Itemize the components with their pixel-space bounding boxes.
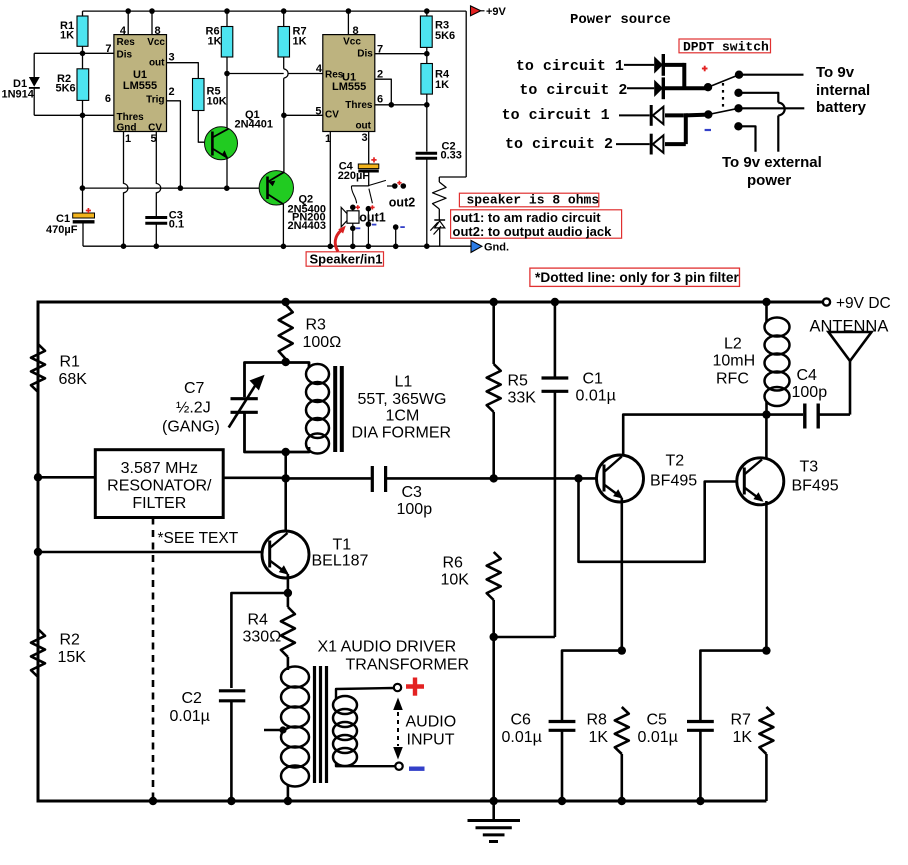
node left rail junction dots — [34, 473, 42, 556]
label to circuit 1 (row1) — [516, 58, 624, 75]
wire Q1 emitter down to net row — [226, 158, 228, 188]
node tank top junction dot — [282, 358, 290, 366]
svg-text:+9V DC: +9V DC — [836, 295, 891, 312]
svg-text:330Ω: 330Ω — [243, 629, 282, 646]
polarity + mark audio (red) — [406, 678, 424, 696]
wire U1b pin6 Thres row — [375, 104, 427, 106]
svg-text:*Dotted line: only for 3 pin f: *Dotted line: only for 3 pin filter — [535, 270, 739, 285]
node Q2 collector at rail dot — [281, 244, 287, 250]
svg-text:R5: R5 — [508, 373, 529, 390]
U1a pin number labels — [105, 25, 175, 145]
label To 9v internal battery — [816, 64, 870, 116]
resistor R5 10K — [193, 79, 205, 111]
wire ground rail (top circuit) — [83, 245, 471, 247]
label AUDIO INPUT — [406, 714, 457, 749]
svg-text:3.587 MHz: 3.587 MHz — [121, 460, 198, 477]
wire T1 emitter to node — [287, 574, 290, 593]
inductor L2 10mH RFC — [765, 302, 790, 415]
svg-text:BF495: BF495 — [650, 473, 697, 490]
wire row1 to diode — [624, 64, 654, 66]
svg-text:out2: to output audio jack: out2: to output audio jack — [453, 224, 613, 239]
transistor Q1 2N4401 — [205, 127, 238, 160]
label +9V — [486, 6, 507, 18]
capacitor C1 0.01u — [542, 302, 569, 637]
svg-text:1CM: 1CM — [386, 408, 420, 425]
switch contact dots — [734, 71, 743, 131]
speaker (8 ohm) — [341, 207, 359, 228]
transformer X1 primary winding — [281, 657, 309, 801]
label ANTENNA — [810, 318, 889, 336]
svg-text:L2: L2 — [724, 336, 742, 353]
svg-text:Trig: Trig — [146, 95, 164, 106]
polarity + mark (switch, red) — [702, 66, 708, 72]
wire row3 to diode — [619, 114, 650, 116]
svg-text:100p: 100p — [397, 501, 433, 518]
wire U1a pin1 Gnd to ground rail — [124, 132, 128, 247]
svg-text:power: power — [747, 172, 791, 189]
label R6 1K — [206, 26, 222, 48]
resistor R8 1K — [615, 707, 629, 801]
svg-text:DIA FORMER: DIA FORMER — [352, 425, 452, 442]
wire left rail to resonator — [38, 476, 95, 479]
capacitor C3 0.1 (top circuit) — [145, 218, 167, 247]
svg-text:*SEE TEXT: *SEE TEXT — [158, 530, 239, 547]
resistor R5 33K — [487, 302, 501, 478]
svg-text:to circuit 1: to circuit 1 — [516, 58, 624, 75]
wire C1 bottom to R6 node — [494, 636, 555, 639]
svg-text:R3: R3 — [306, 317, 327, 334]
label R4 330ohm — [243, 612, 282, 646]
node R8 at rail dot — [618, 797, 626, 805]
svg-text:out1: out1 — [359, 210, 385, 224]
wire base row to C3 — [286, 477, 371, 480]
node Q1 collector junction dot — [224, 71, 230, 77]
node out2 minus dot — [393, 224, 399, 230]
label +9V DC — [836, 295, 891, 312]
wire feedback T2 base to T3 base — [579, 478, 745, 561]
wire U1b pin2 to Thres row — [375, 79, 392, 105]
svg-text:R6: R6 — [443, 555, 464, 572]
label R4 1K — [435, 69, 450, 91]
node speaker minus dot — [350, 226, 356, 232]
node out2 contact dots — [392, 183, 406, 189]
label R2 15K — [58, 632, 87, 667]
svg-text:33K: 33K — [508, 390, 537, 407]
svg-text:AUDIO: AUDIO — [406, 714, 457, 731]
value label R1 1K — [60, 20, 74, 42]
node tank bottom junction dot — [282, 448, 290, 456]
node T3 emitter/C5 junction dot — [762, 646, 770, 654]
svg-text:CV: CV — [148, 123, 162, 134]
transistor Q2 2N5400/PN200/2N4403 (PNP) — [259, 171, 293, 205]
label to circuit 2 (row2) — [519, 82, 627, 99]
svg-text:1K: 1K — [435, 79, 449, 91]
wire R4 node down to C2 — [426, 105, 428, 152]
label Q1 2N4401 — [235, 109, 274, 130]
capacitor C6 0.01u — [549, 651, 622, 801]
node R4/Thres junction dot — [424, 102, 430, 108]
node speaker at rail dot — [350, 244, 356, 250]
node out1 plus dot — [366, 206, 372, 212]
label C3 0.1 — [169, 210, 184, 231]
polarity - mark speaker (blue) — [356, 227, 361, 229]
node Q1 emitter junction dot — [224, 185, 230, 191]
svg-text:LM555: LM555 — [332, 81, 366, 93]
svg-text:100p: 100p — [792, 384, 828, 401]
svg-text:R4: R4 — [248, 612, 269, 629]
wire U1a pin5 CV down through C3 — [156, 132, 160, 217]
node T1 emitter junction dot — [284, 589, 292, 597]
svg-text:470µF: 470µF — [46, 224, 78, 236]
node thres1 junction dot — [80, 113, 86, 119]
terminal +9V DC (open circle) — [823, 298, 830, 305]
wire left supply rail — [37, 301, 40, 803]
svg-text:Speaker/in1: Speaker/in1 — [310, 252, 383, 267]
capacitor C2 0.01u (audio) — [219, 691, 245, 801]
svg-text:DPDT switch: DPDT switch — [683, 40, 769, 55]
polarity + mark out1 — [370, 205, 374, 209]
wire tank bottom to base row — [284, 452, 287, 478]
svg-text:FILTER: FILTER — [132, 495, 186, 512]
terminal audio input + (open circle) — [394, 684, 401, 691]
label T1 BEL187 — [312, 537, 369, 570]
svg-text:0.01µ: 0.01µ — [576, 388, 616, 405]
svg-text:1K: 1K — [293, 36, 307, 48]
svg-text:TRANSFORMER: TRANSFORMER — [346, 657, 470, 674]
value label R2 5K6 — [56, 73, 76, 95]
capacitor C4 220uF electrolytic — [358, 164, 379, 186]
svg-text:5K6: 5K6 — [435, 30, 455, 42]
node dots on transmitter top rail — [282, 298, 771, 306]
svg-text:L1: L1 — [395, 374, 413, 391]
label R5 33K — [508, 373, 537, 407]
polarity + mark speaker — [356, 205, 360, 209]
svg-text:C5: C5 — [647, 712, 668, 729]
svg-text:out2: out2 — [389, 195, 415, 209]
node U1b pin1 at rail dot — [328, 244, 334, 250]
svg-text:1N914: 1N914 — [2, 88, 35, 100]
svg-text:1: 1 — [125, 133, 131, 145]
op-amp U1 LM555 (first timer IC) body — [114, 35, 167, 132]
dashed line (3 pin filter) — [152, 518, 155, 802]
svg-text:BF495: BF495 — [792, 478, 839, 495]
wire U1b pin7 Dis to R3/R4 node — [375, 53, 427, 55]
polarity - mark out1 (blue) — [372, 224, 377, 226]
svg-text:T2: T2 — [666, 453, 685, 470]
svg-text:Gnd: Gnd — [117, 123, 137, 134]
diode D1 1N914 — [29, 53, 83, 115]
resistor R4 330ohm — [281, 593, 295, 657]
wire Q2 collector down to ground rail — [282, 204, 284, 246]
svg-text:internal: internal — [816, 82, 870, 99]
node dis1 junction (R1/R2/D1/pin7) — [80, 51, 86, 57]
svg-text:1K: 1K — [208, 36, 222, 48]
inductor L1 coil — [306, 364, 329, 454]
resistor R2 15K — [31, 629, 45, 677]
label R3 100ohm — [303, 317, 342, 352]
polarity + mark C4 — [371, 157, 376, 162]
wire pin7 Dis row to U1a — [83, 52, 114, 54]
svg-text:1K: 1K — [589, 729, 609, 746]
wire T1 base row — [38, 551, 269, 554]
indicator resistor (LED series) — [433, 11, 467, 220]
label C4 100p — [792, 367, 828, 401]
wire tank circuit loop — [245, 363, 310, 453]
node pin2/Thres junction dot — [389, 102, 395, 108]
svg-text:10mH: 10mH — [713, 353, 756, 370]
label L2 10mH RFC — [713, 336, 756, 388]
label R1 68K — [59, 354, 88, 389]
svg-text:5: 5 — [315, 106, 321, 118]
resistor R1 — [77, 11, 88, 53]
svg-text:2: 2 — [169, 86, 175, 98]
label *SEE TEXT — [158, 530, 239, 547]
svg-text:C7: C7 — [184, 380, 205, 397]
svg-text:Dis: Dis — [117, 50, 133, 61]
capacitor C3 100p — [372, 466, 385, 492]
label Q2 2N5400 PN200 2N4403 — [288, 194, 327, 232]
red callout arrow to speaker — [335, 226, 346, 252]
node resonator/base row dot — [282, 474, 290, 482]
label to circuit 1 (row3) — [502, 107, 610, 124]
label R3 5K6 — [435, 20, 455, 43]
callout box: Speaker/in1 — [306, 252, 383, 267]
wire R6 node to U1b pin4 Res — [227, 73, 323, 75]
svg-text:5K6: 5K6 — [56, 83, 76, 95]
svg-text:8: 8 — [353, 25, 359, 37]
diode D row3 (to circuit 1, reversed) — [651, 105, 663, 126]
svg-text:to circuit 1: to circuit 1 — [502, 107, 610, 124]
wire Thres row to U1a pin6 — [83, 114, 114, 116]
LED indicator diode — [430, 220, 445, 246]
label T2 BF495 — [650, 453, 697, 490]
svg-text:10K: 10K — [207, 96, 227, 108]
wire Q1 collector up to R6 node — [226, 74, 228, 129]
L1 core bars — [335, 366, 342, 452]
svg-text:0.01µ: 0.01µ — [170, 708, 210, 725]
svg-text:2N4401: 2N4401 — [235, 118, 274, 130]
svg-text:ANTENNA: ANTENNA — [810, 318, 889, 336]
node C5 at rail dot — [696, 797, 704, 805]
X1 core bars — [315, 666, 327, 783]
transistor T1 BEL187 — [262, 531, 309, 578]
svg-text:C6: C6 — [511, 712, 532, 729]
label T3 BF495 — [792, 459, 839, 495]
svg-text:0.01µ: 0.01µ — [638, 729, 678, 746]
wire U1b pin8 to rail — [347, 11, 349, 34]
svg-text:INPUT: INPUT — [407, 732, 455, 749]
svg-text:3: 3 — [169, 51, 175, 63]
svg-text:out: out — [149, 58, 165, 69]
wire bottom ground rail (transmitter) — [37, 800, 767, 803]
svg-text:T1: T1 — [333, 537, 352, 554]
svg-text:R7: R7 — [731, 712, 752, 729]
svg-text:Power source: Power source — [570, 12, 671, 28]
label C1 0.01u — [576, 371, 616, 405]
switch pole + blade — [704, 75, 739, 92]
resistor R1 68K — [31, 344, 45, 392]
wire top contact to internal battery + — [739, 74, 804, 76]
svg-text:3: 3 — [362, 132, 368, 144]
svg-text:4: 4 — [120, 25, 127, 37]
switch blade to speaker/in1 — [351, 186, 356, 203]
svg-text:RFC: RFC — [716, 371, 749, 388]
switch out-select common stub — [352, 185, 369, 187]
transistor T2 BF495 — [597, 455, 644, 502]
wire out2 line to ground rail — [395, 227, 397, 246]
wire T1 collector riser — [284, 478, 287, 532]
diode D row1 (to circuit 1) — [654, 54, 663, 76]
wire +9V DC top rail (transmitter) — [38, 301, 823, 304]
svg-text:R2: R2 — [60, 632, 81, 649]
svg-text:6: 6 — [105, 93, 111, 105]
wire emitter node to C2 branch — [231, 593, 288, 688]
ground Gnd terminal arrow (blue) — [471, 240, 482, 252]
node out1 at rail dot — [366, 244, 372, 250]
wire C3 to T2 base — [386, 477, 603, 480]
wire R5 to Q1 base — [198, 111, 205, 143]
svg-text:55T, 365WG: 55T, 365WG — [358, 391, 447, 408]
callout box: speaker is 8 ohms — [459, 193, 599, 208]
polarity + mark C1 — [86, 208, 91, 213]
wire CV node to U1b pin5 — [284, 114, 323, 116]
title Power source — [570, 12, 671, 28]
terminal audio input - (open circle) — [395, 763, 402, 770]
node out2 at rail dot — [393, 244, 399, 250]
node trig1 junction dot — [178, 185, 184, 191]
wire U1b pin1 to ground rail — [329, 132, 331, 247]
wire thick join rows3-4 to - pole — [665, 113, 708, 144]
label C3 100p — [397, 484, 433, 518]
svg-text:Gnd.: Gnd. — [484, 241, 509, 253]
label R6 10K — [441, 555, 470, 589]
wire +9V top supply rail of 555 circuit — [83, 10, 467, 12]
wire middle contact down to external power — [739, 93, 785, 152]
U1a internal pin labels — [117, 37, 166, 134]
wire speaker to ground rail — [352, 228, 354, 246]
transistor T3 BF495 — [737, 458, 784, 505]
capacitor C5 0.01u — [687, 651, 766, 801]
wire T3 emitter down — [765, 501, 768, 651]
node R6/C1 junction dot — [490, 633, 498, 641]
U1b pin number labels — [315, 25, 383, 145]
node L2 bottom junction dot — [762, 410, 770, 418]
svg-text:10K: 10K — [441, 572, 470, 589]
label C6 0.01u — [502, 712, 542, 747]
svg-text:to circuit 2: to circuit 2 — [505, 136, 613, 153]
resistor R3 5K6 — [420, 11, 432, 54]
node out1 minus dot — [366, 221, 372, 227]
wire third contact to internal battery - — [739, 107, 805, 109]
resistor R3 100ohm — [279, 305, 293, 360]
svg-text:to circuit 2: to circuit 2 — [519, 82, 627, 99]
resistor R4 1K — [421, 54, 433, 105]
audio input arrows (dashed) — [393, 698, 403, 760]
wire row2 to diode — [627, 87, 654, 89]
svg-text:Res: Res — [117, 37, 136, 48]
svg-text:T3: T3 — [800, 459, 819, 476]
resistor R2 — [77, 53, 89, 115]
label C5 0.01u — [638, 712, 678, 747]
label C7 gang — [162, 380, 220, 436]
label out2 — [389, 195, 415, 209]
node speaker plus dot — [350, 205, 356, 211]
svg-text:220µF: 220µF — [338, 170, 370, 182]
node dots on ground rail — [121, 243, 159, 249]
wire T2 emitter down — [620, 498, 623, 651]
node C2 at rail dot — [227, 797, 235, 805]
node X1 primary at rail dot — [284, 797, 292, 805]
svg-text:15K: 15K — [58, 649, 87, 666]
node dashed line at rail dot — [149, 797, 157, 805]
svg-text:(GANG): (GANG) — [162, 418, 220, 435]
svg-text:R8: R8 — [587, 712, 608, 729]
polarity + mark out2 — [397, 181, 401, 185]
svg-text:Dis: Dis — [357, 49, 373, 60]
callout box: out1/out2 description — [451, 210, 622, 239]
svg-text:To 9v: To 9v — [816, 64, 855, 81]
antenna — [829, 332, 872, 415]
svg-text:0.1: 0.1 — [169, 219, 184, 231]
wire control net row y188 — [82, 187, 267, 189]
node R6 at rail dot — [490, 797, 498, 805]
svg-text:6: 6 — [377, 94, 383, 106]
capacitor C1 470uF electrolytic — [73, 115, 95, 246]
label to circuit 2 (row4) — [505, 136, 613, 153]
svg-text:7: 7 — [105, 43, 111, 55]
label L1 55T — [352, 374, 452, 442]
callout box: DPDT switch — [679, 39, 771, 55]
node T2 emitter/C6 junction dot — [618, 646, 626, 654]
wire out2 contact stub — [387, 185, 395, 187]
svg-text:1K: 1K — [60, 30, 74, 42]
svg-text:½.2J: ½.2J — [176, 399, 211, 416]
svg-text:R1: R1 — [60, 354, 81, 371]
diode D row2 (to circuit 2) — [654, 77, 663, 99]
svg-text:out: out — [355, 120, 371, 131]
label R5 10K — [207, 86, 227, 108]
block 3.587 MHz resonator/filter — [95, 450, 223, 518]
node C6 at rail dot — [558, 797, 566, 805]
svg-text:Thres: Thres — [345, 100, 373, 111]
label Gnd. — [484, 241, 509, 253]
svg-text:BEL187: BEL187 — [312, 552, 369, 569]
polarity - mark audio (blue) — [409, 767, 425, 771]
U1b internal pin labels — [325, 37, 373, 132]
svg-text:To 9v external: To 9v external — [722, 154, 822, 171]
label X1 audio driver transformer — [318, 639, 470, 674]
label R7 1K — [731, 712, 753, 747]
label C2 0.33 — [441, 141, 462, 162]
label C4 220uF — [338, 161, 370, 183]
label R8 1K — [587, 712, 609, 747]
op-amp U1 LM555 (second timer IC) body — [323, 35, 375, 132]
node junction dots on +9V rail — [125, 8, 429, 14]
svg-text:C3: C3 — [402, 484, 423, 501]
resistor R7 1K (output) — [759, 707, 773, 801]
wire out1 line — [367, 209, 369, 247]
svg-text:C2: C2 — [182, 690, 203, 707]
svg-text:Vcc: Vcc — [343, 37, 361, 48]
wire thick join rows1-2 to + pole — [665, 63, 708, 88]
svg-text:Res: Res — [325, 69, 344, 80]
svg-text:RESONATOR/: RESONATOR/ — [107, 478, 212, 495]
label To 9v external power — [722, 154, 822, 189]
callout box: Dotted line note — [530, 268, 740, 286]
ground symbol (transmitter) — [468, 801, 521, 842]
wire U1a pin8 to rail — [151, 11, 153, 34]
svg-text:100Ω: 100Ω — [303, 334, 342, 351]
